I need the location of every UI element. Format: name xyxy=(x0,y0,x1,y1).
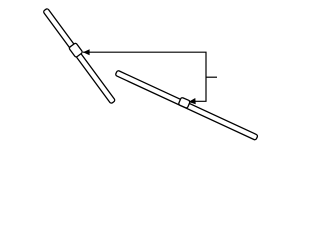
wiper blade 1 (upper left rod) xyxy=(43,8,115,104)
arrowhead pointing to blade-2 adapter xyxy=(189,98,196,104)
arrowhead pointing to blade-1 adapter xyxy=(83,49,90,55)
wiper blade 2 (lower right rod) xyxy=(115,70,258,140)
tick on vertical wire xyxy=(206,76,217,78)
adapter collar on blade 1 xyxy=(69,43,83,58)
callout wire: horizontal + vertical + short bottom segment xyxy=(83,52,206,101)
adapter collar on blade 2 xyxy=(178,97,190,108)
